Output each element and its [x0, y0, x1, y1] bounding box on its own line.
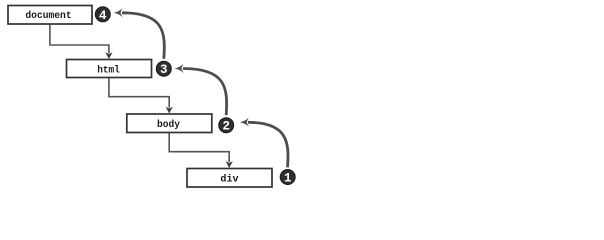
badge 4 [95, 7, 110, 23]
box body [127, 114, 212, 133]
box html [67, 60, 152, 78]
curved arrow 2→3 [175, 64, 227, 115]
svg-text:1: 1 [284, 172, 292, 186]
wire html→body [109, 78, 173, 114]
svg-text:4: 4 [99, 9, 107, 23]
badge 2 [219, 118, 234, 134]
badge 1 [280, 170, 295, 186]
svg-text:2: 2 [222, 120, 230, 134]
svg-text:document: document [25, 10, 71, 22]
svg-text:3: 3 [160, 63, 168, 77]
svg-text:div: div [220, 174, 238, 186]
box div [187, 169, 272, 188]
svg-text:html: html [97, 64, 120, 76]
svg-text:body: body [157, 119, 180, 131]
badge 3 [156, 61, 171, 77]
curved arrow 1→2 [240, 118, 288, 168]
box document [8, 6, 92, 25]
curved arrow 3→4 [114, 8, 165, 59]
wire body→div [169, 133, 233, 169]
wire document→html [50, 24, 113, 59]
